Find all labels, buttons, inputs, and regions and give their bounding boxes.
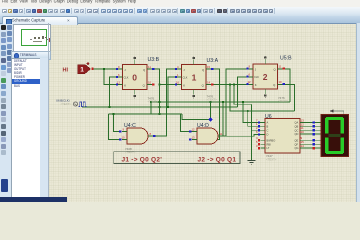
svg-text:C: C [267,128,269,132]
wire decoder C D ground column [251,104,253,160]
wire Q2 output down to bus [283,69,291,102]
svg-text:U6: U6 [265,114,272,120]
state squares U3:B [116,68,155,86]
svg-text:CLK: CLK [254,76,259,79]
svg-text:QD: QD [295,132,299,136]
wire lower bus to U4:D input 1 [181,114,193,132]
wire U4:D output riser to J of U5:B [219,69,249,136]
wire Q0' to K of U3:A [160,84,177,86]
svg-text:QA: QA [295,121,299,125]
node junction Q0 bus left [158,101,160,103]
annotation frame [114,152,240,164]
svg-text:14: 14 [301,144,305,148]
node junction Q1' b [233,83,235,85]
wire lower bus to U4:C input 2 [109,114,122,140]
svg-text:K: K [255,83,257,87]
flip-flop U3:B [118,60,153,95]
svg-text:2: 2 [263,72,268,82]
svg-text:<TEXT>: <TEXT> [61,102,72,106]
svg-text:A: A [267,121,269,125]
wire HI net horizontal to J of U3:B [94,68,118,70]
node junction A feed [242,101,244,103]
and-gate U4:D [192,128,226,144]
ground symbol GND1 [248,160,256,164]
wire Q2' output down to B line [283,85,295,112]
wire bus114 to bus102 link via diamond [182,102,211,120]
node junction clock 2 [167,106,169,108]
svg-text:QB: QB [295,124,299,128]
pin numbers U6 left [256,118,258,148]
wire clock riser to CLK of U3:A [168,77,177,107]
flip-flop U3:A preset pin mark [193,57,196,59]
svg-text:15: 15 [207,65,211,69]
node junction B drop [247,110,249,112]
wire decoder input C stub [252,129,261,131]
svg-text:J2 -> Q0 Q1: J2 -> Q0 Q1 [198,156,237,163]
state squares U4:D [189,117,212,140]
node junction HI branch [103,68,105,70]
svg-text:QG: QG [295,146,299,150]
svg-text:<TEXT>: <TEXT> [148,100,159,104]
svg-text:U3:B: U3:B [148,57,160,63]
svg-text:K: K [124,84,126,88]
svg-text:HI: HI [63,68,69,74]
node junction bus 114 [158,113,160,115]
svg-text:11: 11 [220,132,223,136]
power terminal arrow for display common [330,109,334,112]
wire clock riser to CLK of U3:B [110,77,118,107]
pin numbers U3:A [176,65,211,85]
svg-text:<TEXT>: <TEXT> [207,98,218,102]
left strip icons [0,24,13,197]
wire to decoder input B [230,85,295,112]
clock generator U6:B(CLK) [56,98,86,106]
display common pin wire [333,111,344,115]
svg-text:CLK: CLK [183,77,188,80]
state squares U6 left [258,121,260,149]
terminals header [11,51,51,60]
tab bar [0,16,360,25]
terminals list [11,58,42,200]
toolbar [0,7,360,17]
state squares U4:C [119,130,155,140]
state squares U3:A [175,68,214,86]
flip-flop U3:B clear pin mark [134,96,137,99]
menu bar [0,0,360,8]
svg-text:10: 10 [122,135,126,139]
svg-text:<TEXT>: <TEXT> [278,99,289,103]
wire Q0 bus horizontal [151,101,290,103]
pin numbers U3:B [117,65,152,85]
wire clock bus [82,106,238,108]
wire HI net branch down to K of U3:B [104,69,118,85]
svg-text:U4:C: U4:C [124,123,136,129]
svg-text:QF: QF [295,142,299,146]
flip-flop U5:B [248,59,283,94]
pin numbers U6 right [301,119,305,149]
node junction clock 1 [108,106,110,108]
svg-text:10: 10 [279,80,283,84]
wire Q1 output down to U4:D input 2 [192,69,220,140]
seven-segment display DISP1 [321,115,349,157]
wire Q1' to K of U5:B [206,84,249,86]
flip-flop U3:A clear pin mark [193,96,196,99]
wires decoder outputs to display [305,123,322,149]
sidebar/canvas separator [47,23,50,197]
pin numbers U5:B [248,64,283,84]
node junction clock crossing [158,106,160,108]
svg-text:10: 10 [301,130,305,134]
svg-text:K: K [183,84,185,88]
node junction K2 feed [158,83,160,85]
svg-text:D: D [267,133,269,137]
svg-text:J1 -> Q0 Q2': J1 -> Q0 Q2' [122,156,163,163]
svg-text:1: 1 [80,67,84,74]
flip-flop U3:A [177,60,212,95]
wire Q0 bus down to D feed [223,102,254,136]
svg-text:12: 12 [192,127,196,131]
wire to decoder input C upper [234,85,252,105]
svg-text:<TEXT>: <TEXT> [266,158,277,162]
svg-text:QE: QE [295,138,299,142]
state squares U5:B [246,67,285,85]
node junction Q1' a [229,83,231,85]
flip-flop U3:B preset pin mark [134,57,137,59]
wire decoder input D stub [254,134,261,136]
pin numbers U4:D [192,127,223,139]
node junction Q0 bus right [222,101,224,103]
wire to decoder input A [243,102,261,123]
svg-text:RBI: RBI [267,142,272,146]
wire decoder input B drop [248,111,261,126]
svg-text:11: 11 [148,65,151,69]
wire bus down feed [150,102,152,114]
svg-text:0: 0 [132,72,137,82]
svg-text:13: 13 [192,135,196,139]
logicstate probe showing 1 [78,62,94,73]
node junction link top [209,101,211,103]
wire clock riser to CLK of U5:B [238,77,249,107]
node junction Q0 bus to lower bus [150,101,152,103]
and-gate U4:C [122,128,156,144]
svg-text:U4:D: U4:D [197,123,209,129]
wire U4:C output riser to J of U3:A [148,69,177,136]
svg-text:B: B [267,124,269,128]
node junction lower bus [112,113,114,115]
svg-text:11: 11 [279,64,282,68]
state squares display pins [313,121,315,149]
flip-flop U5:B preset pin mark [264,56,267,58]
flip-flop U5:B clear pin mark [264,95,267,98]
svg-text:1: 1 [192,72,197,82]
svg-text:14: 14 [207,80,211,84]
wire lower bus to U4:C input 1 [114,114,122,132]
wire Q0 output to bus [152,69,160,114]
decoder U6 [261,119,305,154]
svg-text:LT: LT [267,146,270,150]
pin numbers U4:C [122,127,152,139]
minimap [13,24,51,52]
svg-text:QC: QC [295,128,299,132]
svg-text:CLK: CLK [124,77,129,80]
wire lower bus horizontal [109,113,183,115]
svg-text:U5:B: U5:B [280,56,292,62]
svg-text:BI/RBO: BI/RBO [267,138,276,142]
svg-text:10: 10 [148,80,152,84]
svg-text:U3:A: U3:A [207,58,219,64]
